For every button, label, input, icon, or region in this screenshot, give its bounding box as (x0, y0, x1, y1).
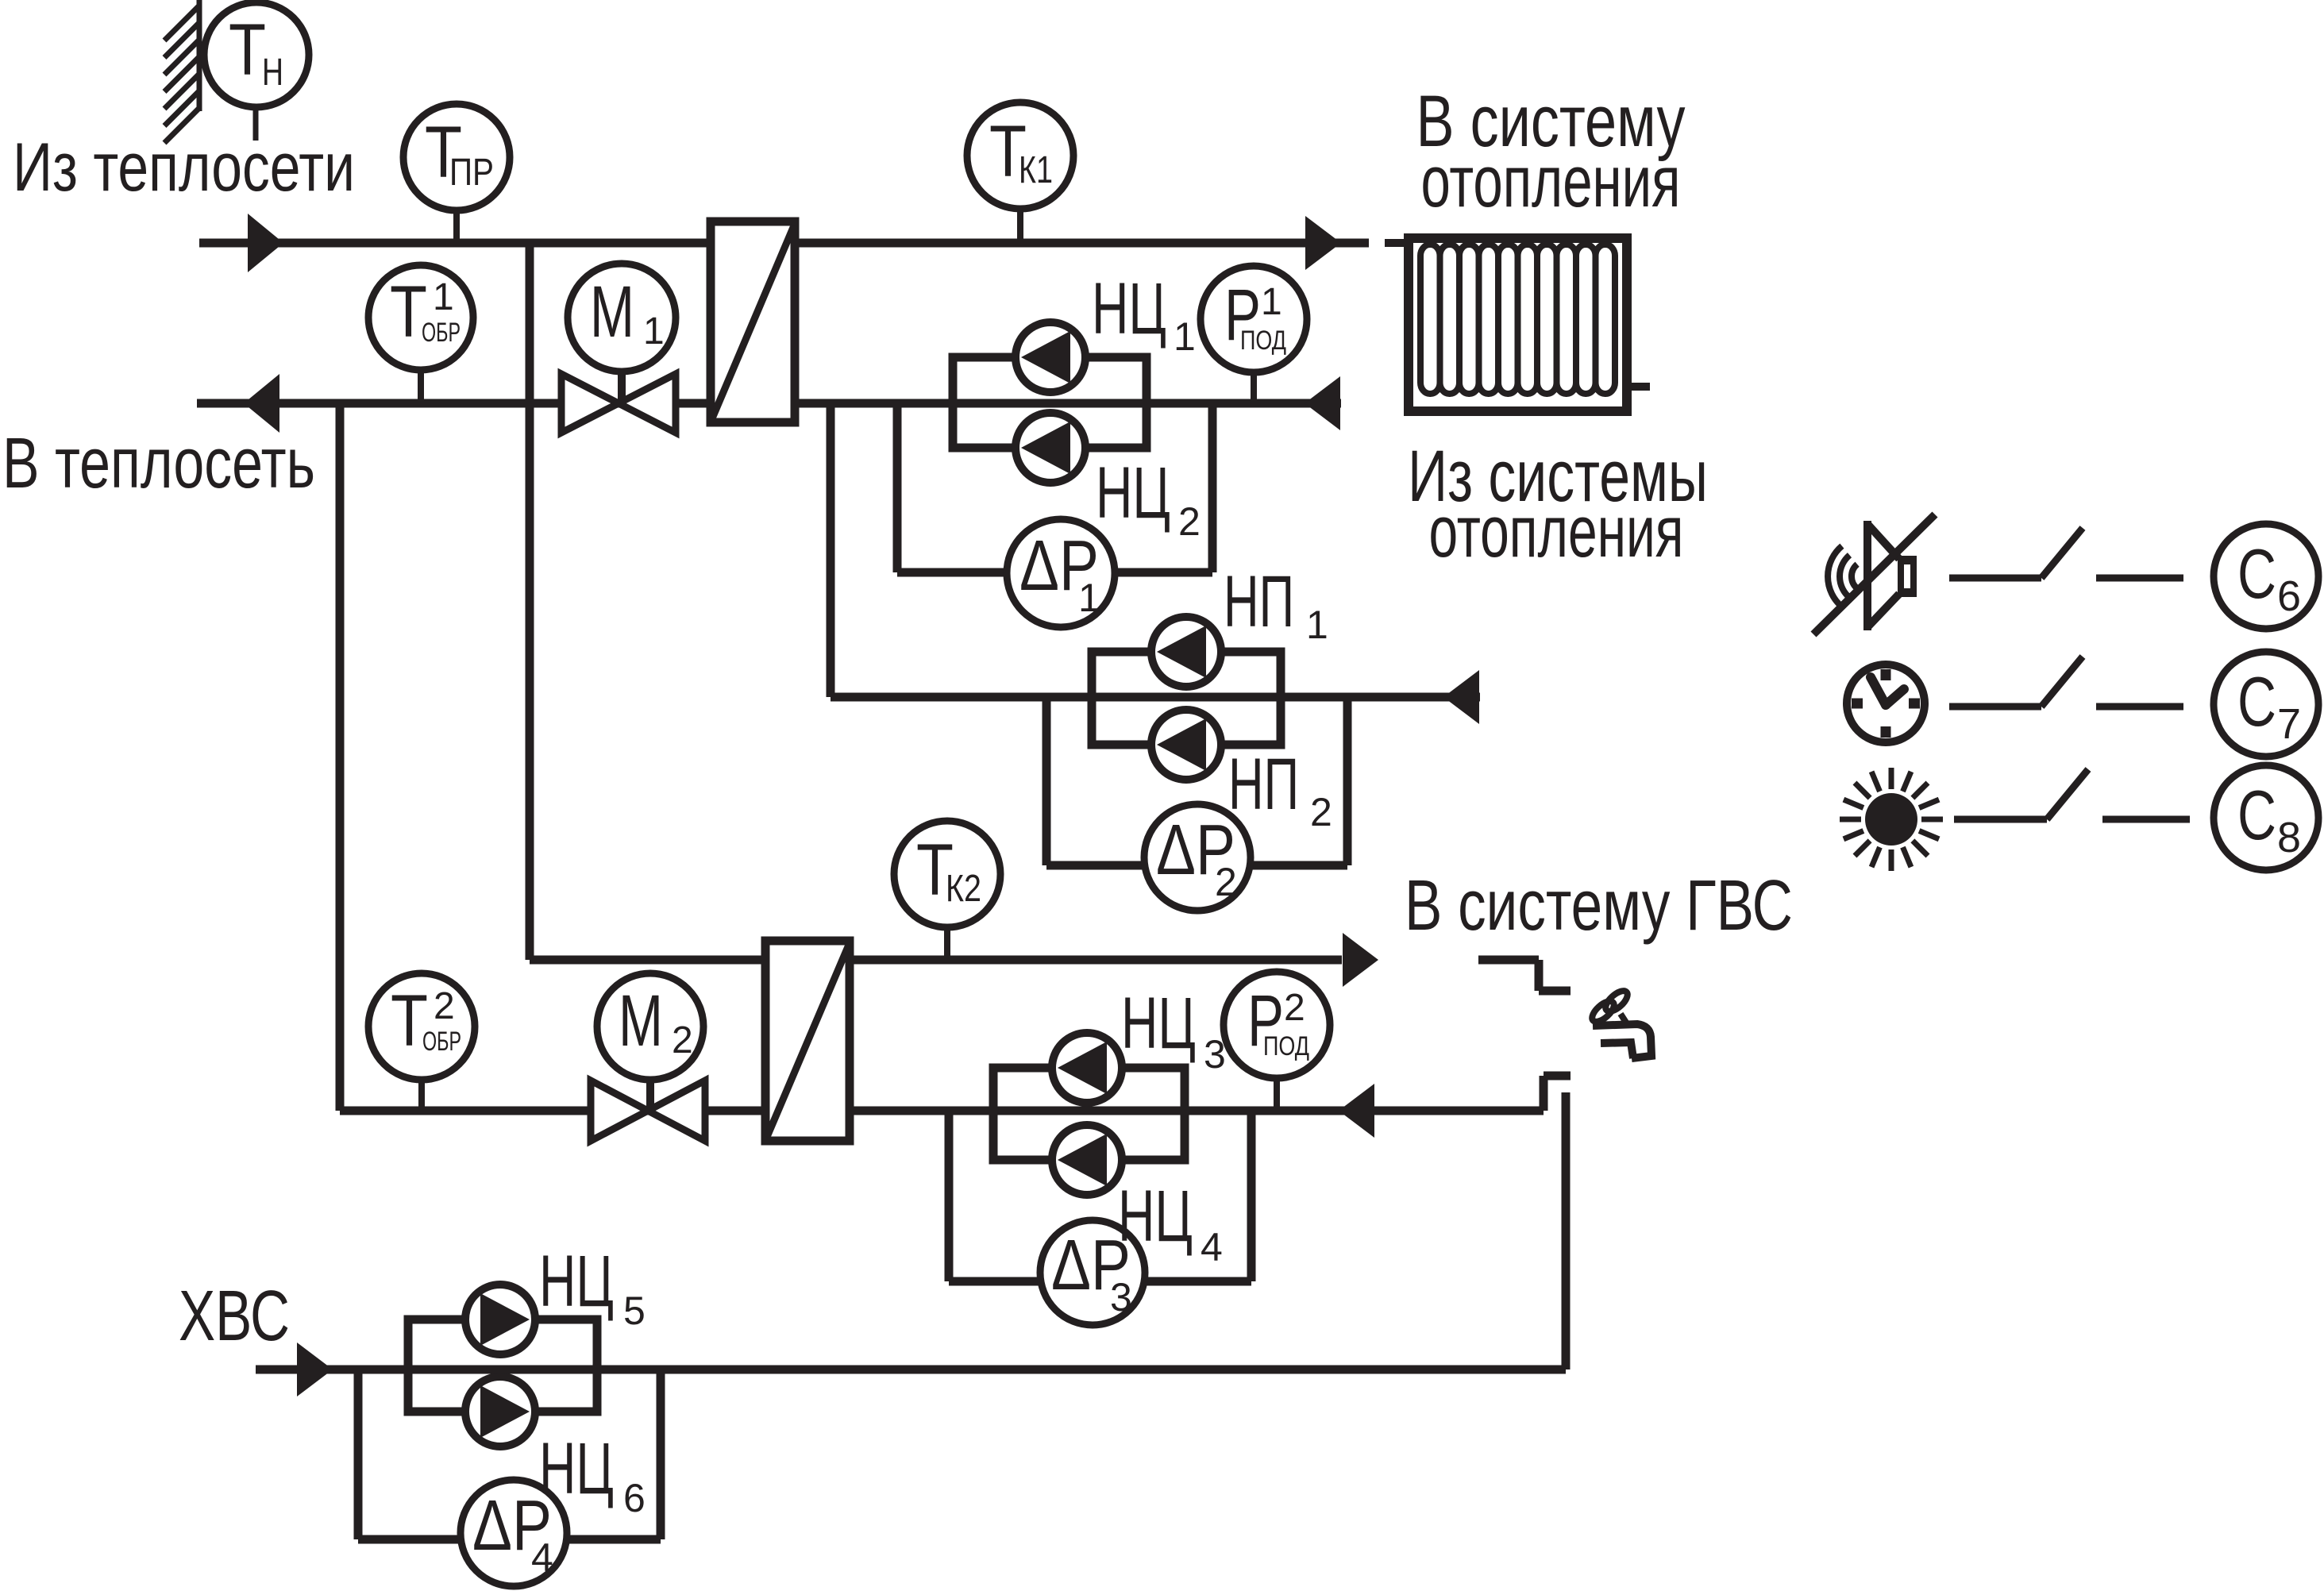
pump NC6 (465, 1377, 535, 1447)
wire cold water supply line HVS (256, 1366, 1566, 1374)
valve of M2 (control valve, DHW) (591, 1081, 648, 1141)
svg-text:отопления: отопления (1421, 141, 1681, 222)
sensor Tn (outdoor temperature) (253, 107, 259, 141)
svg-text:2: 2 (1310, 790, 1332, 834)
svg-text:В систему ГВС: В систему ГВС (1405, 866, 1793, 946)
svg-text:1: 1 (1078, 576, 1100, 620)
svg-text:НЦ: НЦ (1118, 1176, 1193, 1257)
wire supply pipe 2 after arrow (1478, 956, 1539, 965)
svg-text:ХВС: ХВС (179, 1277, 290, 1356)
arrow to DHW system (1343, 933, 1378, 987)
svg-text:1: 1 (1261, 281, 1282, 323)
icon sun (daylight) (1865, 793, 1917, 846)
svg-text:2: 2 (672, 1019, 693, 1061)
pump group box NC1/NC2 (953, 357, 1147, 448)
svg-text:М: М (590, 272, 634, 352)
wire return stub at DHW inlet (1540, 1076, 1548, 1111)
wire supply stub step down at DHW outlet (1535, 960, 1544, 991)
radiator coil (1420, 245, 1440, 394)
sensor dP4 (cold water pumps diff pressure) (461, 1480, 567, 1586)
svg-text:6: 6 (2277, 572, 2301, 620)
sensor Rpod1 (heating supply pressure) (1251, 373, 1257, 403)
arrow on make-up pump line (1443, 670, 1479, 724)
svg-text:6: 6 (623, 1476, 646, 1520)
wire dP3 loop left drop (945, 1111, 954, 1281)
sensor dP1 (pump group 1 diff pressure) (1007, 519, 1115, 627)
wire supply pipe 2 (DHW) (530, 956, 1342, 965)
switch contact C8 (1954, 816, 2047, 823)
svg-text:НЦ: НЦ (539, 1428, 614, 1509)
wire dP4 loop right rise (657, 1369, 665, 1539)
switch contact C7 (1949, 703, 2041, 711)
signal circle C6 (2214, 524, 2318, 629)
svg-text:ПОД: ПОД (1240, 326, 1286, 356)
heat exchanger 1 (heating circuit) (711, 222, 795, 422)
svg-text:НП: НП (1228, 744, 1299, 825)
arrow to heating system (radiator) (1305, 216, 1341, 270)
wire riser from cold water line to DHW system (1562, 1092, 1571, 1369)
wire dP2 loop right rise (1343, 697, 1352, 865)
wire dP1 loop left drop (893, 403, 902, 572)
arrow flow in from heat network (248, 214, 283, 272)
svg-text:2: 2 (1215, 860, 1237, 904)
svg-text:3: 3 (1110, 1275, 1132, 1319)
wire dP1 loop bottom right (1112, 568, 1212, 577)
radiator inlet stub (1385, 239, 1409, 247)
svg-text:Н: Н (262, 52, 283, 94)
wire dP4 loop bottom right (565, 1535, 661, 1544)
pump group box NC3/NC4 (993, 1068, 1185, 1160)
svg-text:М: М (619, 980, 663, 1061)
switch contact C6 (1949, 575, 2041, 582)
signal circle C8 (2214, 765, 2318, 870)
pump NC2 (1016, 413, 1085, 483)
sensor Tobr2 (return temperature 2) (418, 1080, 425, 1111)
svg-text:8: 8 (2277, 814, 2301, 861)
svg-text:НЦ: НЦ (539, 1241, 614, 1322)
wire dP1 loop right rise (1208, 403, 1217, 572)
svg-text:Из теплосети: Из теплосети (13, 129, 355, 206)
svg-text:К1: К1 (1019, 149, 1053, 191)
icon water tap (DHW draw-off) (1593, 1024, 1651, 1058)
svg-text:С: С (2237, 662, 2276, 741)
svg-text:7: 7 (2277, 700, 2301, 748)
svg-text:НЦ: НЦ (1092, 268, 1166, 349)
svg-text:1: 1 (1306, 603, 1328, 647)
wire dP2 loop left drop (1043, 697, 1051, 865)
svg-text:1: 1 (433, 276, 454, 318)
svg-text:С: С (2237, 534, 2276, 613)
valve of M1 (control valve, heating) (561, 374, 619, 433)
radiator outlet stub (1627, 383, 1650, 391)
signal circle C7 (2214, 652, 2318, 757)
wire dP3 loop bottom left (949, 1277, 1042, 1286)
arrow flow out to heat network (244, 374, 279, 433)
svg-text:ПР: ПР (449, 152, 494, 194)
wire dP4 loop bottom left (358, 1535, 462, 1544)
heat exchanger 2 (DHW circuit) (765, 941, 850, 1141)
pump NC1 (1016, 322, 1085, 392)
svg-text:2: 2 (434, 985, 455, 1027)
pump NP2 (1151, 710, 1221, 780)
svg-text:НП: НП (1224, 561, 1294, 642)
wire vertical return from DHW circuit to return pipe 1 (336, 403, 345, 1111)
wire make-up pump line NP (831, 693, 1480, 702)
svg-text:4: 4 (1201, 1225, 1223, 1269)
actuator stem M2 (646, 1075, 654, 1111)
wire supply pipe 1 from heat network (199, 239, 1369, 248)
svg-text:К2: К2 (946, 868, 981, 910)
wire dP4 loop left drop (354, 1369, 363, 1539)
wire vertical feed to DHW heat exchanger (node at supply pipe) (526, 239, 534, 960)
wire vertical feed to make-up pumps NP (827, 403, 835, 697)
sensor Rpod2 (DHW supply pressure) (1274, 1078, 1280, 1111)
svg-text:НЦ: НЦ (1096, 453, 1170, 534)
svg-text:1: 1 (643, 310, 665, 352)
sensor Tobr1 (return temperature 1) (418, 370, 424, 403)
svg-text:С: С (2237, 776, 2276, 854)
arrow from DHW system (1339, 1084, 1374, 1138)
sensor Tk2 (DHW temperature) (944, 928, 950, 960)
pump NC4 (1052, 1125, 1122, 1195)
svg-text:4: 4 (531, 1535, 553, 1580)
motor drive M1 (568, 264, 676, 372)
wire dP1 loop bottom left (897, 568, 1010, 577)
wall (mounting surface of outdoor sensor) (197, 0, 202, 111)
svg-text:отопления: отопления (1429, 491, 1684, 572)
svg-text:5: 5 (623, 1289, 646, 1333)
pump NP1 (1151, 617, 1221, 687)
svg-text:2: 2 (1284, 987, 1305, 1029)
actuator stem M1 (618, 367, 626, 403)
wire dP3 loop right rise (1247, 1111, 1256, 1281)
svg-text:3: 3 (1204, 1032, 1226, 1077)
radiator heating system (1409, 238, 1627, 411)
sensor dP3 (pump group 3 diff pressure) (1040, 1220, 1145, 1325)
pump NC3 (1052, 1033, 1122, 1103)
wire dP2 loop bottom left (1046, 861, 1146, 870)
arrow cold water inlet HVS (297, 1343, 333, 1396)
wire return pipe 2 (DHW) (340, 1107, 1544, 1115)
svg-text:1: 1 (1174, 314, 1196, 359)
svg-text:НЦ: НЦ (1121, 983, 1196, 1064)
wire dP2 loop bottom right (1249, 861, 1347, 870)
sensor Tpr (supply temperature) (453, 210, 460, 243)
sensor Tk1 (heating circuit temperature) (1017, 210, 1023, 243)
svg-text:ПОД: ПОД (1263, 1031, 1309, 1061)
svg-text:ОБР: ОБР (422, 318, 461, 348)
svg-text:2: 2 (1178, 499, 1201, 544)
svg-text:Т: Т (229, 10, 266, 91)
wire return pipe 1 to heat network (197, 399, 1341, 408)
icon clock (schedule) (1847, 665, 1925, 742)
motor drive M2 (597, 973, 703, 1080)
pump group box NP1/NP2 (1092, 652, 1281, 745)
icon muted speaker (alarm off) (1867, 521, 1899, 630)
pump group box NC5/NC6 (408, 1319, 597, 1412)
wire dP3 loop bottom right (1143, 1277, 1251, 1286)
svg-text:ОБР: ОБР (422, 1027, 461, 1057)
pump NC5 (465, 1285, 535, 1354)
sensor dP2 (make-up pumps diff pressure) (1144, 804, 1251, 911)
arrow from heating system (radiator) (1305, 376, 1340, 430)
svg-text:В теплосеть: В теплосеть (2, 424, 315, 503)
